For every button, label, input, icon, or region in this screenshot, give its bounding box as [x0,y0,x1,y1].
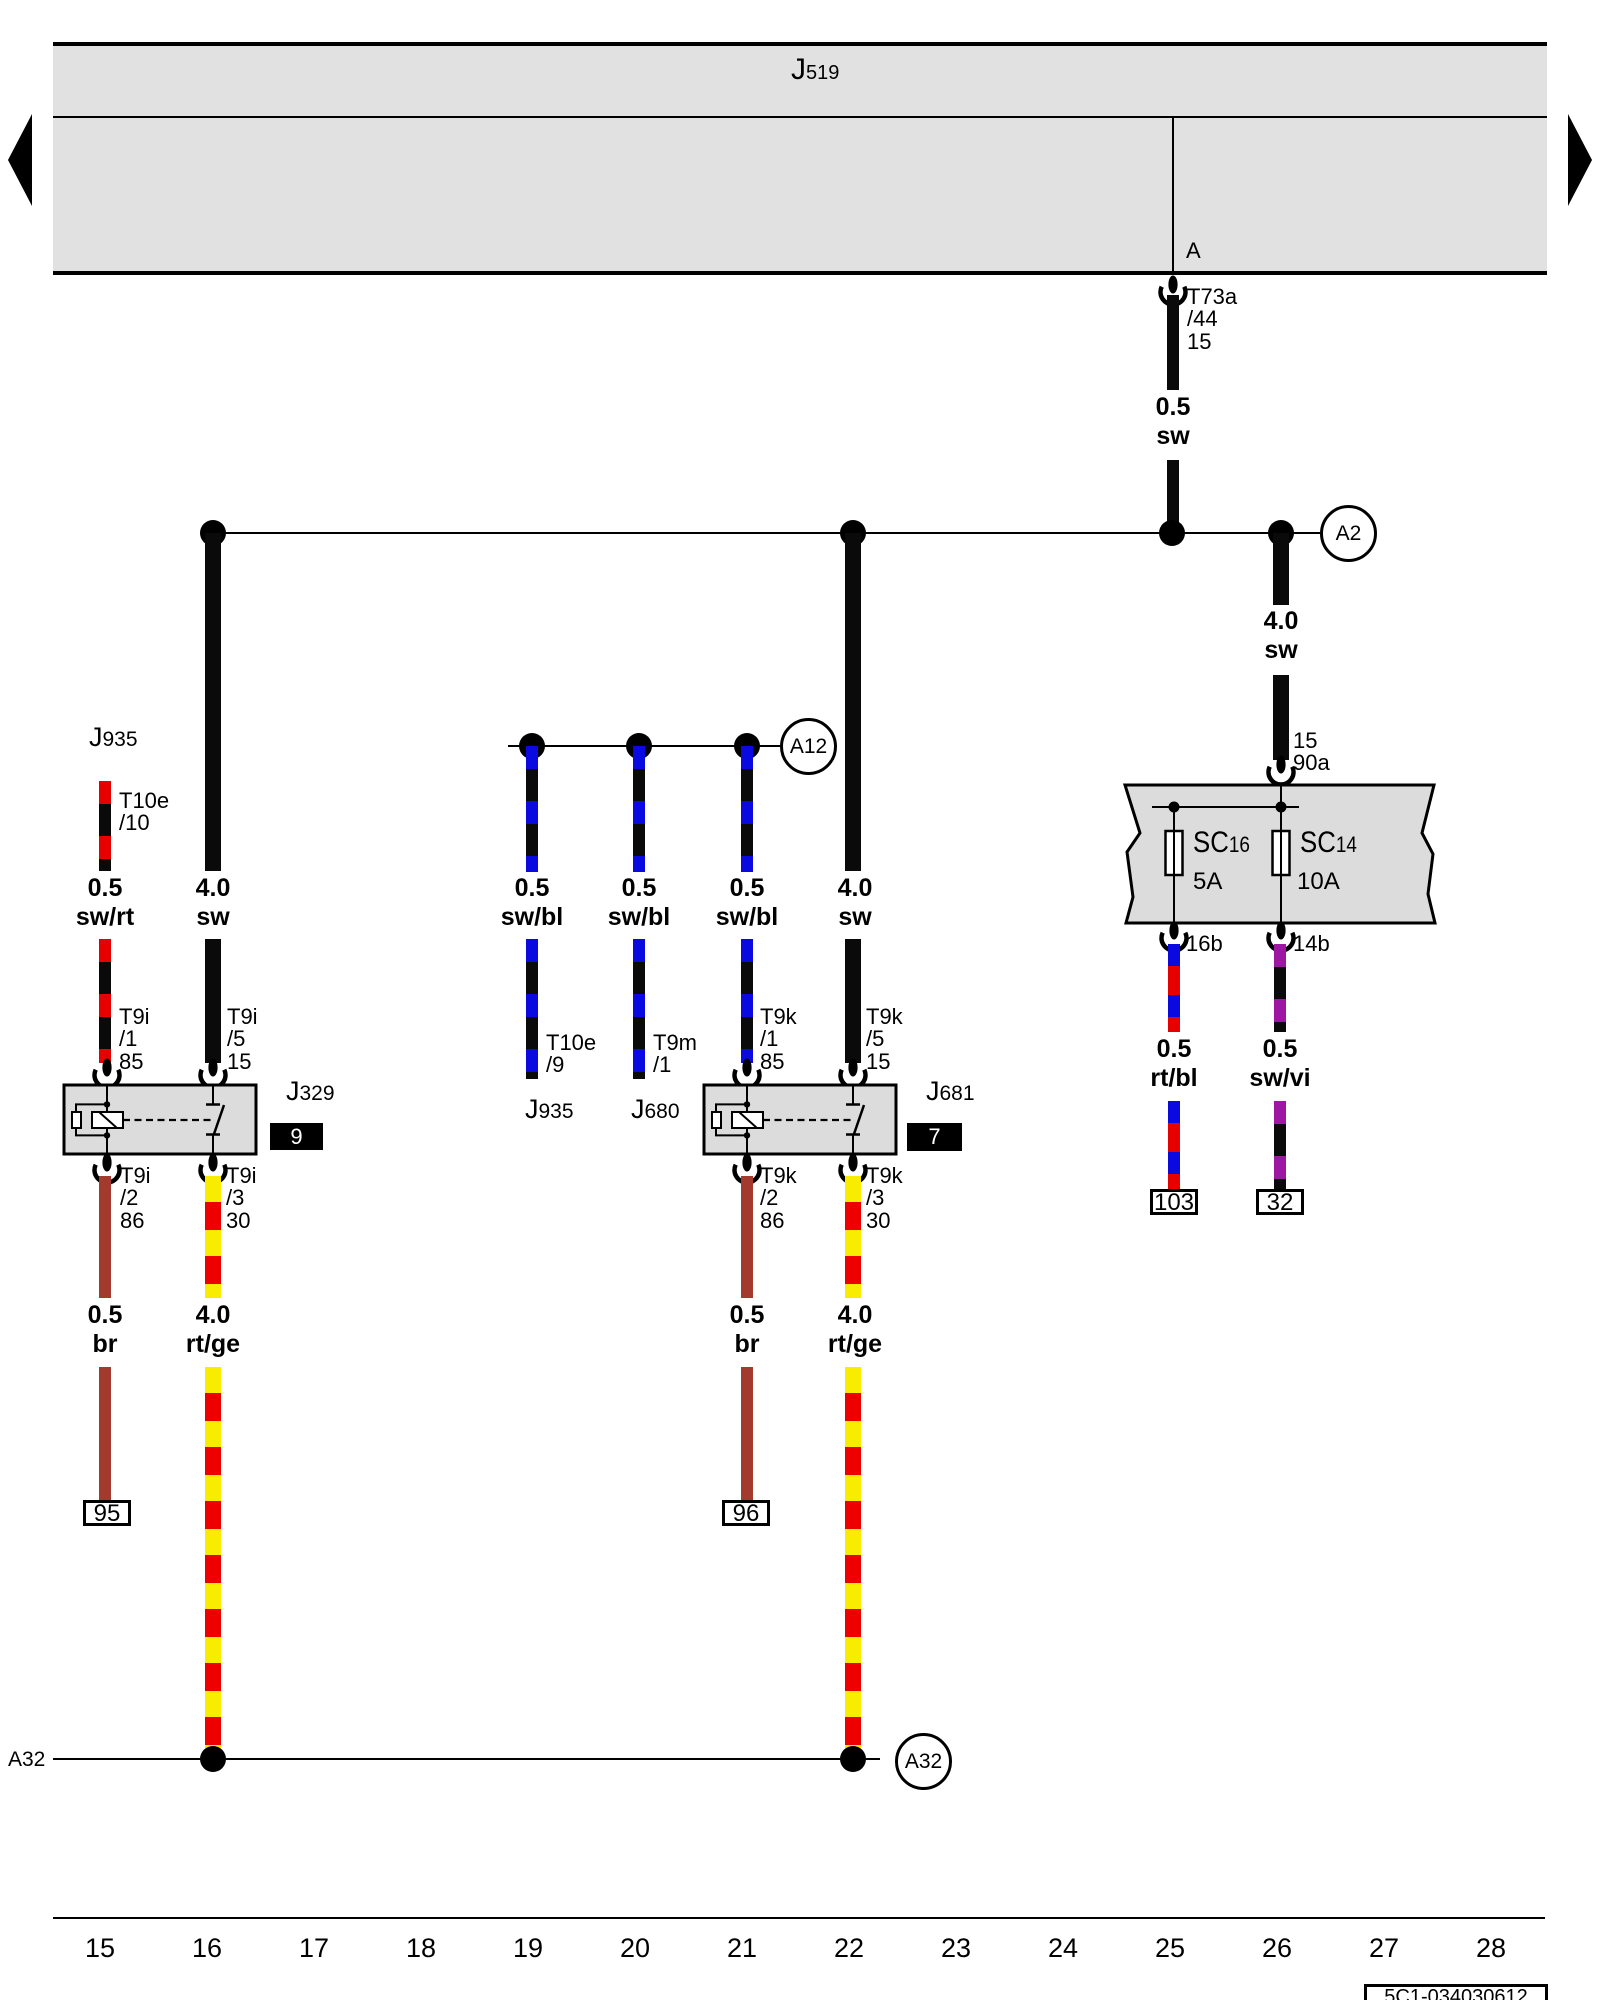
relay J681 [701,1082,899,1157]
wire 0.5 sw/bl #3 [741,746,753,872]
control unit J519 bar [53,44,1547,274]
wire 4.0 sw [1273,533,1289,605]
pin label 15 90a [1293,730,1330,775]
wire 0.5 br [741,1176,753,1298]
fuse SC14 [1273,831,1290,875]
label J680 [631,1094,680,1125]
junction [1268,520,1294,546]
connector T9i/3 [196,1153,230,1187]
position tag 9 [270,1123,323,1150]
wire 0.5 br [99,1176,111,1298]
connector T9i/1 [90,1058,124,1092]
value label 0.5 sw/vi [1210,1035,1350,1093]
fuse SC16 [1166,831,1183,875]
actuation dashed link [763,1119,851,1121]
connector 14b [1264,921,1298,955]
value label 0.5 br [35,1301,175,1359]
pin label T9m/1 [653,1032,697,1077]
pin label T9i/3 30 [226,1165,257,1232]
junction [519,733,545,759]
value label 0.5 br [677,1301,817,1359]
node A2 [1320,505,1377,562]
junction [840,1746,866,1772]
connector T73a/44 [1156,275,1190,309]
connector T9k/1 [730,1058,764,1092]
terminal 32 [1256,1189,1304,1215]
pin label T9k/1 85 [760,1006,797,1073]
pin label A [1186,240,1201,262]
junction [626,733,652,759]
label J935 [525,1094,574,1125]
wire 4.0 rt/ge [845,1176,861,1298]
junction [200,1746,226,1772]
wire 0.5 sw/bl #2 [633,746,645,872]
continuation arrow left [6,112,34,208]
label 5A [1193,868,1222,896]
value label 0.5 sw/bl [569,874,709,932]
pin label 14b [1293,933,1330,955]
connector T9k/3 [836,1153,870,1187]
label SC14 [1300,826,1357,860]
terminal 103 [1150,1189,1198,1215]
pin label T9i/5 15 [227,1006,258,1073]
position tag 7 [907,1123,962,1151]
pin label T9k/5 15 [866,1006,903,1073]
wire [845,939,861,1063]
pin label T9i/1 85 [119,1006,150,1073]
wire [205,1367,221,1759]
wire 4.0 sw [205,533,221,871]
junction [734,733,760,759]
current track ruler [53,1917,1545,1919]
value label 4.0 sw [143,874,283,932]
wire A32 [53,1758,880,1760]
value label 4.0 sw [785,874,925,932]
value label 0.5 sw [1103,393,1243,451]
wire [1273,675,1289,760]
value label 0.5 sw/bl [677,874,817,932]
actuation dashed link [123,1119,211,1121]
label J329 [286,1076,335,1107]
terminal 96 [722,1500,770,1526]
value label 4.0 sw [1211,607,1351,665]
wire 0.5 sw/rt [99,781,111,871]
connector T9k/5 [836,1058,870,1092]
wire 0.5 sw/vi [1274,944,1286,1032]
node A12 [780,718,837,775]
wire [205,939,221,1063]
relay J329 [61,1082,259,1157]
connector 16b [1157,921,1191,955]
wire [1274,1101,1286,1189]
junction [1159,520,1185,546]
connector T9i/5 [196,1058,230,1092]
label J519 [791,53,839,87]
wire [633,939,645,1079]
pin label T10e/10 [119,790,169,835]
connector 90a [1264,755,1298,789]
relay contact switch [846,1085,864,1154]
value label 4.0 rt/ge [143,1301,283,1359]
pin label T9i/2 86 [120,1165,151,1232]
wire [99,939,111,1063]
continuation arrow right [1566,112,1594,208]
wire 4.0 sw [845,533,861,871]
node row: horizontal distribution wire [213,532,1320,534]
wire [99,1367,111,1502]
value label 0.5 sw/rt [35,874,175,932]
pin label 16b [1186,933,1223,955]
relay coil [712,1085,763,1154]
wire [526,939,538,1079]
value label 0.5 rt/bl [1104,1035,1244,1093]
junction [840,520,866,546]
wire [741,1367,753,1502]
terminal 95 [83,1500,131,1526]
relay contact switch [206,1085,224,1154]
wire [1168,1101,1180,1189]
internal bus wire [1152,785,1299,807]
label J935 [89,722,138,753]
junction [1169,802,1180,813]
wire to A12 [508,745,780,747]
junction [1276,802,1287,813]
wire [1167,460,1179,533]
node A32 [895,1733,952,1790]
wire 0.5 sw/bl #1 [526,746,538,872]
label 10A [1297,868,1340,896]
value label 4.0 rt/ge [785,1301,925,1359]
junction [200,520,226,546]
value label 0.5 sw/bl [462,874,602,932]
pin label T10e/9 [546,1032,596,1077]
wire 0.5 sw from J519 [1167,295,1179,390]
wire 0.5 rt/bl [1168,944,1180,1032]
internal line to pin A [1172,118,1174,274]
fuse holder box [1118,778,1442,930]
label SC16 [1193,826,1250,860]
wire [845,1367,861,1759]
connector T9i/2 [90,1153,124,1187]
label A32 [8,1748,45,1772]
wire 4.0 rt/ge [205,1176,221,1298]
pin label T9k/3 30 [866,1165,903,1232]
relay coil [72,1085,123,1154]
wire [741,939,753,1063]
pin label T9k/2 86 [760,1165,797,1232]
drawing number box [1364,1984,1548,2000]
label J681 [926,1076,975,1107]
connector T9k/2 [730,1153,764,1187]
